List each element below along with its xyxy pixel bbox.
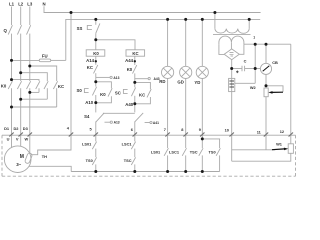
svg-text:KC: KC [132,51,138,56]
svg-text:W1: W1 [276,141,283,146]
svg-text:SC: SC [115,91,121,96]
svg-text:A10: A10 [85,100,93,105]
svg-text:TS0: TS0 [209,149,216,154]
svg-text:FU: FU [42,54,48,59]
svg-text:LSC1: LSC1 [122,142,133,147]
svg-text:10: 10 [225,127,229,132]
svg-text:K0: K0 [100,92,106,97]
svg-text:CB: CB [272,60,278,65]
svg-text:V: V [16,137,19,142]
svg-text:A40: A40 [125,102,133,107]
svg-text:KC: KC [58,84,64,89]
svg-text:D3: D3 [23,126,29,131]
svg-text:TH: TH [42,154,47,159]
svg-text:W: W [24,137,28,142]
svg-text:TS0: TS0 [86,158,93,163]
svg-text:A13: A13 [114,121,120,125]
svg-text:1: 1 [253,36,255,40]
svg-text:N: N [42,2,45,7]
svg-text:TSC: TSC [124,158,132,163]
svg-text:A44: A44 [125,58,133,63]
svg-text:GD: GD [177,79,183,84]
svg-text:RD: RD [159,79,165,84]
svg-text:D2: D2 [14,126,20,131]
svg-text:L2: L2 [18,2,24,7]
svg-text:KC: KC [139,92,145,97]
svg-text:A13: A13 [113,76,119,80]
svg-text:TSC: TSC [190,149,198,154]
svg-text:LS01: LS01 [82,142,92,147]
svg-text:W2: W2 [250,85,257,90]
svg-text:L3: L3 [27,2,33,7]
svg-text:LS01: LS01 [151,149,161,154]
svg-text:M: M [20,154,24,160]
svg-text:S4: S4 [84,114,90,119]
svg-text:U: U [7,137,10,142]
svg-text:3~: 3~ [16,162,21,167]
svg-text:S0: S0 [77,88,83,93]
svg-text:YD: YD [194,80,200,85]
svg-text:KC: KC [87,65,93,70]
svg-text:C: C [244,58,247,63]
svg-text:K0: K0 [127,67,133,72]
svg-text:A14: A14 [86,58,94,63]
svg-text:D1: D1 [4,126,10,131]
svg-text:A43: A43 [154,77,160,81]
svg-text:LSC1: LSC1 [169,149,180,154]
svg-text:K0: K0 [93,51,99,56]
svg-text:L1: L1 [9,2,15,7]
svg-text:7: 7 [164,127,166,132]
svg-text:A41: A41 [153,121,159,125]
svg-text:K0: K0 [1,83,7,88]
svg-text:SS: SS [77,26,83,31]
